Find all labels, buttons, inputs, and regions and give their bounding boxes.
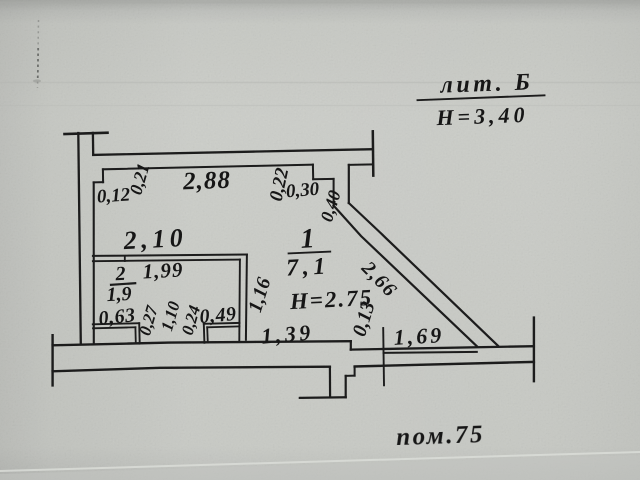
bottom wall top line east (351, 346, 534, 349)
ledge 0,30 horizontal (313, 178, 333, 180)
svg-text:2,10: 2,10 (122, 223, 188, 255)
faint scanner bands (0, 82, 640, 84)
svg-text:7,1: 7,1 (286, 253, 331, 281)
svg-text:1,99: 1,99 (142, 257, 184, 283)
left closet inner right (134, 327, 136, 343)
drop 0,40 vertical (333, 179, 335, 206)
svg-text:1: 1 (300, 223, 316, 255)
svg-text:2,88: 2,88 (182, 167, 232, 196)
svg-text:0,30: 0,30 (285, 179, 320, 203)
inner left wall (93, 182, 95, 344)
svg-text:лит. Б: лит. Б (439, 69, 534, 98)
dimension tick 1,69 (382, 328, 385, 385)
partition tick (124, 256, 126, 261)
left closet outer top (93, 323, 139, 324)
step 0,12 vertical (102, 169, 104, 182)
step up vertical (354, 367, 356, 376)
right closet outer top (204, 322, 240, 325)
bottom wall top line west (53, 341, 351, 345)
right closet outer left (203, 324, 206, 343)
right closet inner top (207, 325, 239, 328)
left margin dotted artifact (38, 20, 39, 88)
partition top line (93, 255, 247, 256)
bottom wall bottom line west (53, 367, 330, 372)
ledge vertical (348, 165, 350, 203)
wall end cap right (372, 131, 375, 175)
ledge up vertical (345, 376, 347, 397)
fraction bar room 2 (111, 283, 135, 285)
fraction bar lit B (418, 95, 545, 100)
svg-text:пом.75: пом.75 (396, 421, 486, 451)
right inner ledge (349, 163, 373, 166)
drop vertical (329, 367, 331, 398)
bottom crease (0, 452, 640, 471)
svg-text:0,63: 0,63 (98, 304, 137, 330)
small step horizontal (346, 375, 355, 377)
right closet inner left (206, 327, 209, 342)
bottom wall bottom line east (355, 362, 534, 367)
bottom wall left cap (51, 335, 53, 385)
left closet outer right (138, 323, 141, 343)
bottom ledge (300, 396, 346, 399)
wall stub top-left (92, 133, 95, 155)
step 0,12 horizontal (94, 181, 103, 183)
step 0,22 vertical (312, 165, 314, 180)
inner ceiling line (103, 165, 313, 170)
outer left wall (78, 133, 81, 344)
partition right inner vertical (238, 260, 241, 341)
left closet inner top (93, 327, 135, 328)
wall end cap bar top-left (65, 133, 108, 134)
svg-text:1,39: 1,39 (260, 319, 314, 348)
partition right outer vertical (246, 255, 247, 340)
bottom wall inner line (384, 352, 477, 353)
bottom wall right cap (533, 318, 535, 382)
svg-text:H=3,40: H=3,40 (435, 102, 529, 130)
top wall (93, 149, 373, 155)
svg-text:0,49: 0,49 (199, 303, 238, 328)
fraction bar room 1 (289, 252, 331, 254)
svg-text:1,9: 1,9 (106, 283, 132, 306)
svg-text:2: 2 (114, 263, 126, 286)
bottom wall jog (350, 341, 352, 349)
partition bottom line (93, 260, 240, 262)
outer diagonal wall (349, 203, 498, 346)
inner diagonal wall (334, 206, 477, 347)
svg-text:1,69: 1,69 (393, 322, 445, 350)
